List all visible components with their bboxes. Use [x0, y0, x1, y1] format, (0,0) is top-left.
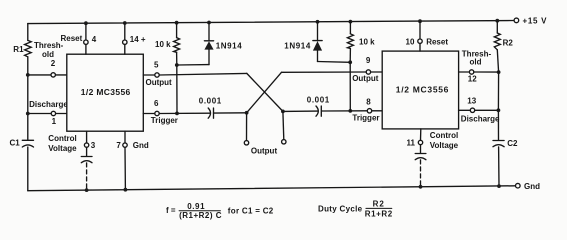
junction rail-R2: [495, 19, 499, 23]
svg-text:Control: Control: [48, 134, 76, 143]
svg-text:1/2 MC3556: 1/2 MC3556: [81, 87, 131, 97]
node output terminal (right): [282, 140, 286, 144]
wire pin 10 reset: [419, 21, 421, 39]
wire pin 3 control voltage: [86, 131, 88, 143]
wire pin13 node to C2: [497, 110, 499, 140]
svg-text:10 k: 10 k: [359, 38, 375, 47]
wire cap-right to right output node: [283, 110, 318, 112]
svg-text:Gnd: Gnd: [133, 141, 149, 150]
svg-text:Voltage: Voltage: [430, 141, 459, 150]
pin 6 circle: [155, 111, 159, 115]
pin 2 circle: [51, 73, 55, 77]
capacitor C1: [22, 139, 33, 141]
svg-text:R2: R2: [503, 38, 514, 47]
wire left branch middle (R1 to C1): [27, 57, 29, 141]
junction left output node: [245, 111, 249, 115]
svg-text:0.001: 0.001: [307, 95, 330, 104]
svg-text:C1: C1: [10, 138, 21, 147]
junction right output node: [281, 110, 285, 114]
wire R2 branch upper: [496, 21, 498, 33]
svg-text:10: 10: [406, 38, 415, 47]
svg-text:C2: C2: [507, 139, 518, 148]
svg-text:1/2 MC3556: 1/2 MC3556: [396, 85, 449, 95]
wire pin12 node to pin13 node: [497, 72, 499, 110]
wire 10k-right lower: [349, 49, 351, 63]
junction gnd-pin11: [419, 185, 423, 189]
capacitor 0.001 (left): [208, 108, 210, 118]
resistor R1: [25, 40, 32, 56]
wire right output terminal stub: [282, 111, 285, 139]
svg-text:Output: Output: [352, 74, 379, 83]
svg-text:old: old: [470, 57, 482, 66]
pin 12 circle: [469, 70, 473, 74]
pin 1 circle: [51, 111, 55, 115]
svg-text:Reset: Reset: [61, 34, 83, 43]
wire trigger8 to cap: [322, 110, 368, 112]
pin 14 circle: [123, 40, 127, 44]
wire output9 horizontal run: [282, 71, 367, 73]
junction left-rail pin1: [26, 112, 30, 116]
junction 10k-diode jog (right): [348, 60, 352, 64]
junction R2-pin12: [497, 70, 501, 74]
junction trigger8-10k: [348, 109, 352, 113]
wire 10k-left lower: [176, 52, 178, 65]
svg-text:old: old: [42, 50, 54, 59]
wire 10k-right down to trigger: [349, 62, 351, 111]
capacitor pin3 bypass: [86, 147, 88, 156]
svg-text:f =: f =: [166, 206, 176, 215]
diode 1N914 (left): [208, 23, 210, 41]
svg-text:Thresh-: Thresh-: [34, 41, 64, 50]
junction left-rail pin2: [26, 73, 30, 77]
wire output5 horizontal run: [159, 73, 247, 75]
junction rail-pin4: [84, 21, 88, 25]
capacitor C2: [493, 140, 504, 142]
svg-text:Discharge: Discharge: [29, 100, 68, 109]
svg-text:Discharge: Discharge: [461, 114, 500, 123]
wire C2 to ground rail: [498, 147, 500, 186]
pin 8 circle: [367, 109, 371, 113]
wire pin 11 control voltage: [420, 129, 422, 141]
pin 7 circle: [123, 143, 127, 147]
wire diode-left jog: [177, 64, 209, 66]
svg-text:1N914: 1N914: [216, 41, 243, 50]
diode 1N914 (right): [317, 22, 319, 41]
resistor 10k (right): [349, 22, 351, 34]
resistor R2: [494, 33, 500, 50]
wire pin 14 V+: [124, 23, 126, 40]
svg-text:3: 3: [91, 141, 96, 150]
wire pin 5 output: [143, 74, 155, 76]
wire discharge (pin 1): [28, 113, 67, 115]
svg-text:12: 12: [468, 75, 477, 84]
wire R2 to pin12 node: [497, 50, 498, 72]
junction rail-10k-left: [175, 21, 179, 25]
svg-text:14 +: 14 +: [130, 35, 146, 44]
wire left output terminal stub: [246, 113, 248, 141]
junction rail-diode-left: [207, 21, 211, 25]
svg-text:Duty Cycle: Duty Cycle: [318, 205, 363, 214]
node +15 V terminal: [514, 18, 519, 23]
node Gnd terminal: [516, 183, 521, 188]
svg-text:R2: R2: [373, 200, 385, 209]
junction rail-pin10: [418, 19, 422, 23]
svg-text:for C1 = C2: for C1 = C2: [228, 206, 274, 215]
svg-text:4: 4: [92, 35, 97, 44]
junction gnd-pin7: [124, 188, 128, 192]
junction rail-pin14: [123, 21, 127, 25]
svg-text:R1: R1: [13, 45, 24, 54]
pin 13 circle: [470, 108, 474, 112]
junction gnd-pin3: [85, 188, 89, 192]
junction gnd-C2: [497, 184, 501, 188]
wire left branch upper (rail to R1): [27, 24, 29, 41]
wire pin 8 trigger: [372, 110, 383, 112]
pin 4 circle: [84, 40, 88, 44]
svg-text:6: 6: [154, 99, 159, 108]
svg-text:Voltage: Voltage: [48, 144, 77, 153]
capacitor 0.001 (right): [316, 106, 318, 116]
svg-text:Gnd: Gnd: [524, 182, 540, 191]
wire diode-right jog: [318, 61, 351, 64]
svg-text:Trigger: Trigger: [151, 116, 178, 125]
resistor 10k (left): [176, 23, 178, 38]
wire trigger6 to cap: [159, 112, 210, 114]
pin 10 circle: [418, 39, 422, 43]
svg-text:0.91: 0.91: [187, 202, 205, 211]
svg-text:Control: Control: [430, 131, 458, 140]
wire Gnd bottom rail: [28, 186, 516, 191]
svg-text:0.001: 0.001: [199, 96, 222, 105]
junction rail-10k-right: [349, 20, 353, 24]
wire 10k-left down to trigger: [176, 65, 178, 113]
svg-text:5: 5: [154, 60, 159, 69]
junction 10k-diode jog (left): [175, 63, 179, 67]
wire pin 9 output: [371, 71, 383, 73]
wire pin 6 trigger: [143, 113, 155, 115]
svg-text:R1+R2: R1+R2: [365, 210, 393, 219]
svg-text:Reset: Reset: [426, 38, 448, 47]
wire dashed pin3 to ground: [86, 163, 88, 190]
wire pin 7 gnd: [124, 131, 126, 143]
svg-text:8: 8: [366, 97, 371, 106]
svg-text:1N914: 1N914: [284, 41, 311, 50]
wire cap-left to left output node: [214, 112, 247, 114]
op-amp U2 1/2 MC3556: [382, 51, 458, 129]
wire pin 12 threshold: [459, 71, 470, 73]
svg-text:7: 7: [116, 141, 121, 150]
wire +15V top rail: [28, 21, 514, 24]
pin 11 circle: [418, 140, 422, 144]
junction rail-diode-right: [316, 20, 320, 24]
svg-text:Trigger: Trigger: [352, 114, 379, 123]
svg-text:11: 11: [407, 139, 416, 148]
capacitor pin11 bypass: [420, 145, 422, 154]
wire threshold (pin 2): [28, 74, 67, 76]
junction R2-pin13: [497, 108, 501, 112]
op-amp U1 1/2 MC3556: [67, 54, 144, 131]
wire left branch lower (C1 to ground rail): [27, 147, 29, 191]
pin 5 circle: [155, 73, 159, 77]
pin 9 circle: [366, 70, 370, 74]
wire output9 diagonal to left trigger node: [247, 72, 282, 113]
svg-text:9: 9: [366, 56, 371, 65]
svg-text:13: 13: [467, 97, 476, 106]
svg-text:Output: Output: [251, 146, 278, 155]
svg-text:1: 1: [52, 117, 57, 126]
svg-text:Output: Output: [146, 78, 173, 87]
junction trigger6-10k: [175, 112, 179, 116]
svg-text:(R1+R2) C: (R1+R2) C: [179, 211, 222, 220]
svg-text:+15 V: +15 V: [523, 16, 548, 25]
wire output5 diagonal to right trigger node: [247, 73, 283, 111]
wire pin 4 reset: [85, 23, 87, 40]
pin 3 circle: [84, 143, 88, 147]
wire pin 13 discharge: [459, 109, 471, 111]
svg-text:2: 2: [51, 59, 56, 68]
node output terminal (left): [244, 141, 248, 145]
wire dashed pin11 to ground: [420, 160, 422, 187]
svg-text:10 k: 10 k: [155, 40, 171, 49]
